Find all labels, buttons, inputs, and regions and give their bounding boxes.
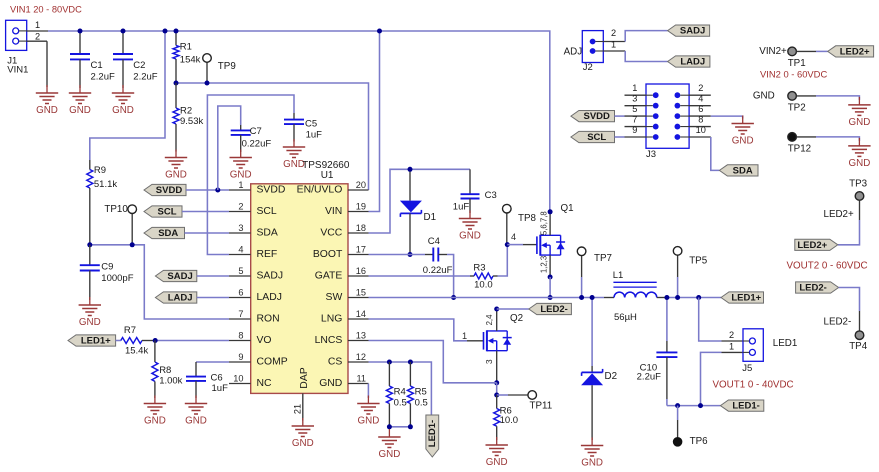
svg-text:4: 4 <box>698 94 703 104</box>
svg-text:1: 1 <box>462 331 467 341</box>
junction divider / TP9 <box>205 81 210 86</box>
capacitor C3 <box>453 169 497 213</box>
J3 pin 1 stub <box>625 83 647 95</box>
U1 pin 7 stub <box>229 309 251 319</box>
svg-text:20: 20 <box>356 180 366 190</box>
net tag SVDD J3 <box>571 111 615 123</box>
wire TP3 to LED2+ tag <box>838 200 860 244</box>
ground DAP <box>292 418 314 449</box>
U1 pin 8 stub <box>229 331 251 341</box>
wire R4 R5 bottom link <box>389 426 410 428</box>
svg-text:LED1+: LED1+ <box>731 293 761 304</box>
J2 pin 1 stub <box>603 50 625 52</box>
junction SW / D2 <box>590 295 595 300</box>
svg-text:16: 16 <box>356 266 366 276</box>
svg-text:TP1: TP1 <box>788 58 806 69</box>
svg-text:C7: C7 <box>250 126 262 137</box>
U1 pin 1 stub <box>229 180 251 190</box>
wire TP12 to ground <box>796 137 859 141</box>
svg-text:C9: C9 <box>101 262 113 273</box>
wire Q2 drain to LED2- tag <box>497 308 529 310</box>
svg-text:LED1-: LED1- <box>427 420 438 447</box>
svg-text:6: 6 <box>238 288 243 298</box>
svg-text:2.2uF: 2.2uF <box>133 72 157 83</box>
svg-text:TP9: TP9 <box>218 61 236 72</box>
svg-text:7: 7 <box>632 115 637 125</box>
U1 pin 17 stub <box>348 245 369 255</box>
capacitor C1 <box>70 31 115 88</box>
wire J5 pin 1 to LED1- rail <box>701 352 722 405</box>
junction LED1- / J5 <box>698 403 703 408</box>
wire C7 to SVDD <box>218 106 241 190</box>
svg-text:TP6: TP6 <box>690 436 709 447</box>
J3 pin 9 stub <box>625 125 647 137</box>
svg-text:SCL: SCL <box>158 207 177 218</box>
capacitor C6 <box>186 362 228 398</box>
test point TP7 <box>577 247 612 298</box>
Q1 gate pin lead <box>523 244 537 246</box>
junction BOOT / D1 <box>408 252 413 257</box>
capacitor C5 <box>284 113 322 142</box>
svg-text:18: 18 <box>356 223 366 233</box>
label Q2 <box>484 313 523 364</box>
resistor R9 <box>87 160 118 245</box>
junction SW / TP5 <box>675 295 680 300</box>
U1 pin 12 stub <box>348 352 369 362</box>
svg-text:1: 1 <box>729 341 734 351</box>
net tag LADJ <box>155 292 196 304</box>
svg-text:4: 4 <box>238 245 243 255</box>
J5 pin 1 stub <box>722 351 744 353</box>
svg-text:5,6,7,8: 5,6,7,8 <box>539 211 548 235</box>
svg-text:1.00k: 1.00k <box>159 376 182 387</box>
svg-text:LED2+: LED2+ <box>797 240 827 251</box>
ground R6 <box>486 437 508 468</box>
svg-text:5: 5 <box>238 266 243 276</box>
svg-text:ADJ: ADJ <box>564 47 583 58</box>
svg-text:VOUT1 0 - 40VDC: VOUT1 0 - 40VDC <box>713 379 794 390</box>
junction Q1 drain <box>548 209 553 214</box>
svg-text:12: 12 <box>356 352 366 362</box>
svg-text:5: 5 <box>632 104 637 114</box>
svg-text:1: 1 <box>632 83 637 93</box>
svg-text:BOOT: BOOT <box>313 249 343 260</box>
resistor R7 <box>121 325 155 357</box>
svg-text:3: 3 <box>238 223 243 233</box>
D2 anode lead <box>591 385 593 440</box>
wire LED1+ tag to R7 <box>116 340 121 342</box>
svg-text:TP10: TP10 <box>104 204 128 215</box>
wire R9 TP10 node to RON pin 7 <box>90 245 229 319</box>
J3 pin 10 stub <box>689 125 711 137</box>
wire TP2 to ground <box>796 96 859 100</box>
J3 pin 7 stub <box>625 115 647 127</box>
transistor Q2 <box>484 330 512 351</box>
ground D2 <box>581 438 603 469</box>
svg-text:Q1: Q1 <box>561 203 574 214</box>
resistor R6 <box>494 395 518 440</box>
U1 pin 16 stub <box>348 266 369 276</box>
connector J1 <box>6 20 27 50</box>
diode D1 <box>400 201 422 217</box>
capacitor C2 <box>113 31 158 88</box>
junction R7 / R8 <box>153 338 158 343</box>
svg-text:VIN1: VIN1 <box>7 64 28 75</box>
svg-text:6: 6 <box>698 104 703 114</box>
svg-text:NC: NC <box>257 378 273 389</box>
svg-text:GND: GND <box>112 105 134 116</box>
svg-text:11: 11 <box>356 374 366 384</box>
svg-text:C1: C1 <box>91 60 103 71</box>
connector J3 <box>646 84 689 148</box>
wire Q1 gate <box>507 244 523 246</box>
svg-text:R4: R4 <box>394 387 406 398</box>
svg-text:LADJ: LADJ <box>257 292 282 303</box>
svg-text:R5: R5 <box>415 387 427 398</box>
svg-text:19: 19 <box>356 202 366 212</box>
wire SCL tag to J3 pin 9 <box>615 136 625 138</box>
ground TP2 <box>848 97 870 128</box>
wire LNG pin 14 to Q2 gate <box>369 319 468 341</box>
wire SW rail pin 15 to L1 <box>369 297 605 299</box>
svg-text:SVDD: SVDD <box>583 111 610 122</box>
J3 pin 5 stub <box>625 104 647 116</box>
svg-text:SDA: SDA <box>733 165 753 176</box>
wire CS pin 12 to LED1- tag <box>369 362 432 415</box>
wire SW rail L1 to LED1+ tag <box>667 297 721 299</box>
junction Q1 source pins <box>548 275 553 280</box>
Q2 drain lead <box>496 309 498 331</box>
junction Q2 source / LNCS <box>494 380 499 385</box>
ground R4 R5 <box>378 429 400 460</box>
U1 pin 5 stub <box>229 266 251 276</box>
svg-text:13: 13 <box>356 331 366 341</box>
svg-text:10: 10 <box>233 374 243 384</box>
U1 pin 6 stub <box>229 288 251 298</box>
svg-text:1uF: 1uF <box>212 383 229 394</box>
svg-text:GND: GND <box>379 449 401 460</box>
wire top rail to R9 <box>90 31 165 160</box>
test point TP2 <box>788 92 806 114</box>
U1 pin 2 stub <box>229 202 251 212</box>
wire Q2 source to R6 <box>496 383 498 395</box>
svg-text:R3: R3 <box>473 263 485 274</box>
U1 pin names <box>257 185 343 390</box>
svg-text:VIN: VIN <box>325 206 342 217</box>
resistor R8 <box>152 341 183 399</box>
wire LED1- rail <box>667 405 721 407</box>
svg-text:VO: VO <box>257 335 272 346</box>
svg-text:0.5: 0.5 <box>415 398 428 409</box>
svg-text:LED1-: LED1- <box>732 401 759 412</box>
svg-text:7: 7 <box>238 309 243 319</box>
svg-text:GND: GND <box>230 170 252 181</box>
label J1 VIN1 <box>7 56 28 76</box>
label Q1 <box>539 203 573 273</box>
svg-text:GND: GND <box>459 231 481 242</box>
svg-text:SW: SW <box>326 292 343 303</box>
wire D1 anode lead <box>409 169 411 200</box>
junction R5 bottom <box>408 424 413 429</box>
svg-text:R1: R1 <box>180 42 192 53</box>
resistor R5 <box>407 362 427 427</box>
svg-text:2.2uF: 2.2uF <box>91 72 115 83</box>
U1 pin 13 stub <box>348 331 369 341</box>
svg-text:TP8: TP8 <box>518 213 537 224</box>
diode D2 <box>581 369 603 385</box>
net tag LED1+ left <box>68 335 116 347</box>
capacitor C10 <box>637 341 678 399</box>
svg-text:R9: R9 <box>94 165 106 176</box>
ground C7 <box>230 150 252 181</box>
svg-text:VIN1 20 - 80VDC: VIN1 20 - 80VDC <box>10 4 82 14</box>
net tag LED1+ output <box>721 292 764 304</box>
U1 pin 11 stub <box>348 374 369 384</box>
wire R3 to Q1 gate node <box>498 245 508 276</box>
net tag SVDD <box>144 184 186 196</box>
junction top rail / R1 <box>174 29 179 34</box>
svg-text:C3: C3 <box>485 190 497 201</box>
U1 pin 10 stub <box>229 374 251 384</box>
svg-text:GND: GND <box>753 91 775 102</box>
wire Q1 source to SW <box>549 277 551 298</box>
U1 pin 18 stub <box>348 223 369 233</box>
J3 pin 6 stub <box>689 104 711 116</box>
junction SW / Q1 <box>548 295 553 300</box>
ground C5 <box>283 139 305 170</box>
J5 pin 2 stub <box>722 340 744 342</box>
junction Q1 gate node <box>505 242 510 247</box>
ground R2 <box>165 150 187 181</box>
svg-text:R2: R2 <box>180 105 192 116</box>
wire J1 pin2 to ground <box>46 41 48 87</box>
ground J3 pin6 <box>732 116 754 147</box>
J1 pin 2 stub <box>27 40 47 42</box>
wire BOOT pin 17 to C4 <box>369 254 426 256</box>
U1 pin 3 stub <box>229 223 251 233</box>
svg-text:10.0: 10.0 <box>474 279 493 290</box>
svg-text:J5: J5 <box>742 363 752 374</box>
svg-text:9: 9 <box>238 352 243 362</box>
svg-text:U1: U1 <box>321 170 334 181</box>
wire C10 to LED1- rail <box>666 399 668 406</box>
svg-text:9: 9 <box>632 125 637 135</box>
net tag SDA <box>144 227 185 239</box>
svg-text:VIN2+: VIN2+ <box>759 46 787 57</box>
svg-text:LED2-: LED2- <box>824 316 852 327</box>
junction CS / R5 <box>408 360 413 365</box>
svg-text:2: 2 <box>698 83 703 93</box>
wire SVDD tag to pin 1 <box>186 189 229 191</box>
svg-text:C6: C6 <box>211 373 223 384</box>
svg-text:GND: GND <box>849 117 871 128</box>
wire SVDD tag to J3 pin 5 <box>615 115 625 117</box>
svg-text:1uF: 1uF <box>306 130 323 141</box>
J3 pin 3 stub <box>625 94 647 106</box>
svg-text:EN/UVLO: EN/UVLO <box>297 185 343 196</box>
svg-text:TP2: TP2 <box>788 102 806 113</box>
svg-text:SADJ: SADJ <box>680 26 705 37</box>
svg-text:SCL: SCL <box>257 206 277 217</box>
svg-text:56µH: 56µH <box>614 312 637 323</box>
net tag LED1- output <box>720 400 763 412</box>
svg-text:R8: R8 <box>159 365 171 376</box>
Q2 source lead <box>496 351 498 383</box>
svg-text:0.22uF: 0.22uF <box>423 265 453 276</box>
net tag SCL <box>144 206 182 218</box>
U1 pin 20 stub <box>348 180 369 190</box>
svg-text:C5: C5 <box>305 119 317 130</box>
svg-text:0.22uF: 0.22uF <box>242 139 272 150</box>
junction VCC / D1 <box>408 167 413 172</box>
svg-text:D1: D1 <box>424 212 437 223</box>
svg-text:TP11: TP11 <box>530 401 553 412</box>
svg-text:L1: L1 <box>613 270 624 281</box>
junction R4 bottom <box>387 424 392 429</box>
test point TP4 <box>855 331 864 340</box>
svg-text:15: 15 <box>356 288 366 298</box>
wire J3 pin 6 to ground <box>711 116 743 118</box>
svg-text:C4: C4 <box>428 236 440 247</box>
wire LED1+ node to C10 <box>666 298 668 342</box>
svg-text:J3: J3 <box>646 149 656 160</box>
U1 pin 9 stub <box>229 352 251 362</box>
wire LNCS pin 13 to Q2 source <box>369 341 497 383</box>
svg-text:GND: GND <box>185 416 207 427</box>
net tag LED2+ TP1 <box>828 46 874 58</box>
junction top rail / C1 <box>78 29 83 34</box>
junction divider / R1-R2 <box>174 81 179 86</box>
junction CS / R4 <box>387 360 392 365</box>
svg-text:GATE: GATE <box>315 271 343 282</box>
ground C1 <box>69 85 91 116</box>
svg-text:TP5: TP5 <box>689 255 708 266</box>
svg-text:SDA: SDA <box>158 228 178 239</box>
svg-text:GND: GND <box>69 105 91 116</box>
svg-text:GND: GND <box>581 458 603 469</box>
test point TP10 <box>104 204 136 245</box>
net tag SDA J3 <box>719 165 758 177</box>
wire D1 cathode lead <box>409 213 411 254</box>
net tag LED1- vertical <box>426 415 439 457</box>
svg-text:J2: J2 <box>583 62 593 73</box>
Q2 gate pin lead <box>467 340 484 342</box>
net tag LADJ J2 <box>668 56 710 68</box>
U1 pin 4 stub <box>229 245 251 255</box>
wire R1 R2 divider to EN/UVLO pin 20 <box>176 83 369 190</box>
capacitor C4 <box>423 236 453 276</box>
junction top rail / C2 <box>121 29 126 34</box>
J3 pin 2 stub <box>689 83 711 95</box>
connector J2 <box>582 31 603 63</box>
ground C3 <box>459 211 481 242</box>
transistor Q1 <box>537 235 565 256</box>
wire SDA tag to pin 3 <box>185 232 230 234</box>
junction SW / C4 <box>451 295 456 300</box>
svg-text:154k: 154k <box>180 55 201 66</box>
ground C6 <box>185 396 207 427</box>
wire J2 pin 1 to LADJ tag <box>625 51 667 62</box>
svg-text:TP4: TP4 <box>849 341 868 352</box>
Q1 source lead <box>549 255 551 277</box>
net tag SCL J3 <box>571 131 615 143</box>
svg-text:10: 10 <box>696 125 706 135</box>
svg-text:GND: GND <box>732 136 754 147</box>
svg-text:LED1+: LED1+ <box>81 336 111 347</box>
svg-text:LED2-: LED2- <box>540 304 567 315</box>
ground C2 <box>112 85 134 116</box>
junction top rail / VIN riser <box>377 29 382 34</box>
connector J5 <box>743 329 763 362</box>
capacitor C9 <box>80 245 134 300</box>
svg-text:CS: CS <box>328 357 343 368</box>
net tag SADJ J2 <box>668 25 710 37</box>
svg-text:LED2+: LED2+ <box>840 46 870 57</box>
op-amp U1 TPS92660 body <box>251 184 348 394</box>
svg-text:Q2: Q2 <box>510 313 523 324</box>
U1 pin 14 stub <box>348 309 369 319</box>
junction top rail / R9 branch <box>163 29 168 34</box>
svg-text:GND: GND <box>144 416 166 427</box>
svg-text:GND: GND <box>486 457 508 468</box>
svg-text:LED1: LED1 <box>773 338 798 349</box>
wire SW to D2 <box>591 298 593 367</box>
svg-text:0.5: 0.5 <box>394 398 407 409</box>
junction node / TP10 <box>130 242 135 247</box>
svg-text:GND: GND <box>79 317 101 328</box>
junction SW / TP7 <box>579 295 584 300</box>
svg-text:SVDD: SVDD <box>156 185 183 196</box>
svg-text:3: 3 <box>484 359 494 364</box>
svg-text:2: 2 <box>611 28 616 38</box>
junction Q2 drain / LED2- <box>494 307 499 312</box>
svg-text:LNG: LNG <box>321 314 342 325</box>
resistor R3 <box>470 263 498 291</box>
svg-text:9.53k: 9.53k <box>180 116 203 127</box>
wire LED1+ to J5 pin 2 <box>699 298 722 342</box>
junction node / R9 <box>87 242 92 247</box>
D2 cathode lead <box>591 366 593 372</box>
svg-text:C2: C2 <box>133 60 145 71</box>
junction Q2 source / TP11 <box>494 393 499 398</box>
svg-text:2: 2 <box>35 32 40 42</box>
net tag LED2- output <box>796 282 839 294</box>
junction SW / J5 riser <box>696 295 701 300</box>
svg-text:2,4: 2,4 <box>485 314 494 326</box>
svg-text:LADJ: LADJ <box>680 57 705 68</box>
wire VCC pin 18 to C3 <box>369 169 471 233</box>
svg-text:GND: GND <box>292 438 314 449</box>
test point TP12 <box>788 133 811 155</box>
wire LADJ tag to pin 6 <box>197 297 229 299</box>
wire TP1 to LED2+ tag <box>796 50 827 52</box>
wire C4 to SW <box>447 255 454 298</box>
wire J2 pin 2 to SADJ tag <box>625 31 667 42</box>
wire VIN top rail <box>48 31 550 212</box>
svg-text:51.1k: 51.1k <box>94 179 117 190</box>
resistor R4 <box>386 362 406 427</box>
svg-text:GND: GND <box>36 105 58 116</box>
svg-text:DAP: DAP <box>299 367 310 388</box>
svg-text:14: 14 <box>356 309 366 319</box>
svg-text:REF: REF <box>257 249 278 260</box>
svg-text:RON: RON <box>257 314 280 325</box>
junction LED1- / TP6 <box>675 403 680 408</box>
svg-text:15.4k: 15.4k <box>125 346 148 357</box>
svg-text:10.0: 10.0 <box>500 415 518 426</box>
svg-text:SADJ: SADJ <box>167 271 192 282</box>
wire R7 to VO pin 8 <box>155 340 229 342</box>
